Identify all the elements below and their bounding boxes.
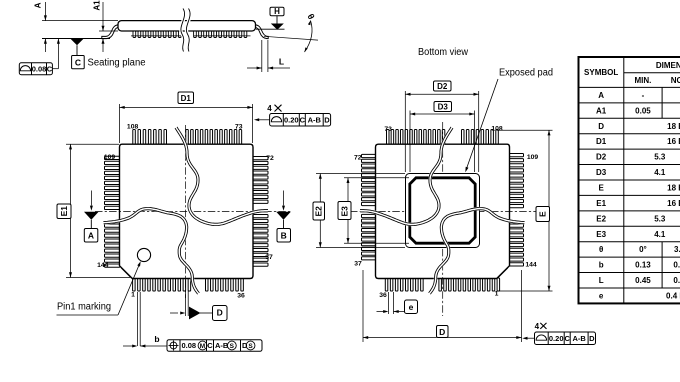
top view top pins (133, 130, 242, 146)
svg-text:A: A (33, 2, 42, 8)
bottom view package body (376, 144, 510, 278)
dimensions table (579, 57, 680, 303)
svg-text:D2: D2 (596, 153, 607, 162)
svg-text:Exposed pad: Exposed pad (499, 68, 553, 79)
datum D callout (170, 291, 227, 321)
dimension D1 (120, 92, 253, 143)
dimension E (497, 130, 553, 291)
svg-text:0.08: 0.08 (32, 64, 47, 73)
svg-text:1: 1 (495, 291, 499, 298)
dimension E1 (57, 144, 130, 277)
pin number labels top view (97, 124, 274, 300)
svg-text:A: A (598, 91, 604, 100)
svg-text:C: C (207, 341, 213, 350)
svg-text:4.1: 4.1 (654, 168, 666, 177)
svg-text:0.13: 0.13 (635, 261, 651, 270)
svg-text:C: C (300, 115, 306, 124)
svg-text:D: D (324, 115, 330, 124)
svg-text:C: C (47, 64, 53, 73)
svg-text:108: 108 (491, 125, 503, 132)
svg-text:0.45: 0.45 (635, 276, 651, 285)
svg-text:18 BSC: 18 BSC (667, 122, 680, 131)
svg-text:MIN.: MIN. (635, 76, 652, 85)
svg-text:A-B: A-B (308, 115, 322, 124)
svg-text:5.3: 5.3 (654, 153, 666, 162)
pin number labels bottom view (354, 125, 538, 299)
svg-text:109: 109 (527, 154, 539, 161)
pin1 marking circle (137, 248, 150, 261)
svg-text:18 BSC: 18 BSC (667, 183, 680, 192)
svg-text:A1: A1 (596, 106, 607, 115)
dimension E2 (313, 174, 405, 248)
dimension e (377, 292, 418, 314)
svg-text:e: e (599, 292, 604, 301)
svg-text:E: E (538, 211, 548, 217)
bottom view right pins (508, 154, 524, 267)
svg-text:0.18: 0.18 (673, 261, 680, 270)
svg-text:0.05: 0.05 (635, 106, 651, 115)
svg-text:144: 144 (525, 262, 537, 269)
datum H callout (256, 7, 285, 30)
dimension D3 (410, 102, 475, 173)
svg-text:A1: A1 (93, 0, 102, 11)
svg-text:S: S (248, 343, 253, 350)
svg-text:4.1: 4.1 (654, 230, 666, 239)
svg-text:θ: θ (599, 245, 603, 254)
svg-text:Pin1 marking: Pin1 marking (57, 302, 111, 313)
exposed pad outer (406, 174, 480, 248)
svg-text:A: A (88, 231, 94, 241)
datum C seating plane symbol (70, 39, 84, 69)
svg-text:D: D (439, 327, 445, 337)
svg-text:73: 73 (384, 126, 392, 133)
svg-text:E3: E3 (596, 230, 606, 239)
datum B (276, 191, 291, 243)
break line left-to-bottom (104, 209, 199, 294)
svg-text:E1: E1 (596, 199, 606, 208)
svg-text:73: 73 (235, 124, 243, 131)
svg-text:16 BSC: 16 BSC (667, 199, 680, 208)
svg-text:D1: D1 (181, 94, 192, 103)
svg-text:D: D (598, 122, 604, 131)
svg-text:E1: E1 (59, 206, 69, 217)
svg-text:109: 109 (104, 154, 116, 161)
svg-text:36: 36 (379, 292, 387, 299)
svg-text:DIMENSIONS: DIMENSIONS (656, 61, 680, 70)
tolerance callout 4x 0.20 C A-B bottom (522, 322, 595, 345)
dimension D2 (405, 81, 478, 172)
side view right lead (255, 25, 269, 39)
svg-text:H: H (274, 7, 280, 16)
top view right pins (253, 157, 269, 267)
dimension A (33, 2, 118, 52)
svg-text:108: 108 (127, 124, 139, 131)
svg-text:0.08: 0.08 (182, 341, 197, 350)
top view bottom pins (133, 278, 244, 291)
pin1 marking label (57, 261, 141, 315)
svg-text:M: M (200, 343, 205, 350)
svg-text:e: e (409, 302, 414, 312)
svg-text:b: b (599, 261, 604, 270)
svg-text:Seating plane: Seating plane (88, 57, 146, 68)
svg-text:5.3: 5.3 (654, 214, 666, 223)
dimension D bottom (363, 270, 522, 342)
side view leads row (131, 31, 251, 38)
svg-text:θ: θ (305, 12, 316, 21)
svg-text:0°: 0° (639, 245, 647, 254)
dimension b and position tolerance (123, 292, 262, 351)
svg-text:4: 4 (535, 322, 540, 331)
svg-text:E3: E3 (340, 206, 350, 217)
svg-text:D1: D1 (596, 137, 607, 146)
side view package body (118, 21, 256, 31)
svg-text:4: 4 (267, 104, 272, 113)
svg-text:0.20: 0.20 (549, 334, 564, 343)
svg-text:D3: D3 (438, 103, 449, 112)
svg-text:E2: E2 (314, 206, 324, 217)
svg-text:A-B: A-B (215, 341, 229, 350)
svg-text:NOM.: NOM. (671, 76, 680, 85)
exposed pad label (465, 68, 553, 173)
svg-text:37: 37 (354, 260, 362, 267)
bottom view index chamfer (498, 268, 508, 278)
svg-text:L: L (599, 276, 604, 285)
side view left lead (102, 25, 119, 39)
bottom view top pins (387, 130, 499, 146)
bottom view bottom pins (385, 278, 499, 291)
bottom view centerlines (350, 122, 540, 316)
dimension A1 (93, 0, 119, 52)
top view centerlines (95, 125, 292, 298)
seating plane line (42, 38, 110, 40)
break line top-to-right (176, 128, 268, 225)
svg-text:C: C (564, 334, 570, 343)
svg-text:16 BSC: 16 BSC (667, 137, 680, 146)
svg-text:1: 1 (131, 292, 135, 299)
flatness callout 0.08 C (19, 39, 60, 75)
top view package body (120, 144, 254, 278)
bottom view break line right-to-bottom (430, 209, 525, 294)
svg-text:E2: E2 (596, 214, 606, 223)
svg-text:A-B: A-B (572, 334, 586, 343)
svg-text:144: 144 (97, 262, 109, 269)
top view left pins (105, 156, 121, 267)
svg-text:S: S (230, 343, 235, 350)
svg-text:-: - (642, 91, 645, 100)
svg-text:D: D (217, 308, 223, 318)
svg-text:3.5°: 3.5° (674, 245, 680, 254)
svg-text:D: D (589, 334, 595, 343)
exposed pad inner (410, 178, 475, 243)
svg-text:72: 72 (354, 155, 362, 162)
svg-text:E: E (598, 183, 604, 192)
side view break lines (181, 9, 190, 52)
svg-text:36: 36 (237, 292, 245, 299)
svg-text:B: B (281, 231, 287, 241)
dimension E3 (338, 178, 409, 243)
tolerance callout 4x 0.20 C A-B top (254, 104, 331, 126)
svg-text:b: b (154, 334, 159, 344)
svg-text:Bottom view: Bottom view (418, 47, 469, 58)
dimension L (247, 40, 290, 72)
svg-text:0.4 BSC: 0.4 BSC (666, 292, 680, 301)
pin 1 index chamfer (121, 268, 131, 278)
lead angle theta (264, 12, 318, 52)
svg-text:D2: D2 (437, 82, 448, 91)
svg-text:0.20: 0.20 (284, 115, 299, 124)
svg-text:0.60: 0.60 (673, 276, 680, 285)
bottom view left pins (362, 154, 378, 260)
datum A (84, 191, 99, 243)
svg-text:D3: D3 (596, 168, 607, 177)
svg-text:C: C (75, 57, 81, 67)
svg-text:SYMBOL: SYMBOL (584, 68, 618, 77)
bottom view break line top-to-left (360, 128, 452, 225)
svg-text:L: L (279, 57, 284, 67)
svg-text:37: 37 (265, 254, 273, 261)
svg-text:72: 72 (266, 155, 274, 162)
